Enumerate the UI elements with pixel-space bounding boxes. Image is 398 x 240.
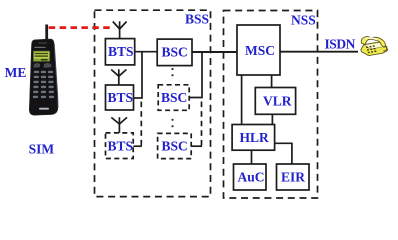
svg-text:SIM: SIM [29,141,55,156]
base body [361,42,388,56]
svg-text:EIR: EIR [281,170,305,185]
wire BSC1 - MSC [192,51,237,53]
wire MSC - VLR [271,75,273,88]
svg-text:NSS: NSS [291,13,316,28]
telephone icon ISDN [361,37,388,56]
mobile phone ME: earpiece [38,42,47,44]
mobile phone ME: screen [33,51,50,62]
box BTS1 [105,39,134,65]
antenna 2 [111,69,126,85]
wire trunk down to BTS2 row [141,52,143,98]
mobile phone ME: nav keys [34,63,41,67]
svg-text:VLR: VLR [263,94,292,109]
cord curl [383,46,386,51]
box BTS2 [106,85,134,110]
wire MSC - HLR [241,75,243,125]
box BSC2 (dashed) [158,85,189,111]
box BSC1 [157,39,192,66]
ellipsis BSC1-BSC2 [171,68,173,70]
svg-text:BTS: BTS [108,90,134,105]
antenna 3 [111,117,127,133]
svg-text:MSC: MSC [245,43,275,58]
box VLR [255,88,295,115]
wire BTS1 - BSC1 [135,51,158,53]
svg-text:AuC: AuC [238,170,265,185]
wire BSC riser dashed continuation to BSC3 [201,102,203,147]
mobile phone ME: bottom label [39,108,49,110]
BSS dashed box [95,10,211,196]
mobile phone ME: right edge highlight [54,44,58,108]
mobile phone ME: body [29,39,58,115]
svg-text:ISDN: ISDN [325,37,356,52]
box AuC [234,164,267,190]
NSS dashed box [224,11,318,199]
box HLR [232,125,275,151]
svg-text:BSC: BSC [162,139,188,154]
keypad dots [366,45,376,53]
box MSC [237,25,280,75]
wire BTS3 stub [133,145,142,147]
mobile phone ME: keypad [33,71,54,98]
box EIR [277,164,310,190]
svg-text:HLR: HLR [240,130,270,145]
mobile phone ME: logo line [35,47,46,48]
svg-text:BSC: BSC [161,90,187,105]
handset [361,37,385,48]
wire MSC - ISDN [280,51,358,53]
ellipsis BSC2-BSC3 [171,119,173,121]
radio link: red dashed wire [49,26,115,29]
wire trunk dashed continuation to BTS3 [140,102,142,147]
antenna 1 [113,21,127,38]
wire BTS2 - trunk [134,97,143,99]
wire BSC3 stub [191,145,202,147]
box BTS3 (dashed) [106,133,134,159]
box BSC3 (dashed) [158,133,192,158]
base top face highlight [364,42,385,49]
svg-text:BTS: BTS [108,138,134,153]
mobile phone ME: antenna [45,25,48,41]
svg-text:ME: ME [5,65,27,80]
wire VLR - HLR [271,114,273,124]
svg-text:BTS: BTS [108,44,134,59]
wire HLR - EIR [275,143,292,164]
wire BSC2 riser [189,52,202,98]
wire HLR - AuC [251,150,253,164]
svg-text:BSS: BSS [185,12,209,27]
svg-text:BSC: BSC [162,45,188,60]
handset bar highlight [365,37,378,40]
